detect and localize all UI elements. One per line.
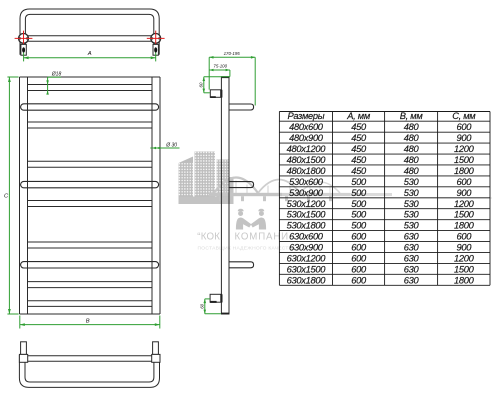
- svg-text:170-195: 170-195: [224, 51, 241, 56]
- svg-text:600: 600: [456, 122, 472, 132]
- top view left bracket stem: [21, 44, 26, 55]
- side view middle protruding rung end: [229, 182, 254, 188]
- dimensions table grid: [279, 112, 490, 286]
- svg-text:1500: 1500: [454, 264, 475, 274]
- svg-text:530x1200: 530x1200: [287, 199, 327, 209]
- svg-text:500: 500: [351, 199, 367, 209]
- watermark handshake figures: [236, 209, 266, 230]
- bottom view right bracket block: [152, 354, 160, 362]
- top view right bracket stem: [153, 44, 158, 55]
- svg-text:1200: 1200: [454, 144, 475, 154]
- bottom view right bracket stem: [153, 342, 159, 355]
- svg-text:630: 630: [404, 232, 420, 242]
- front view rung 3: [28, 122, 153, 128]
- svg-text:480: 480: [404, 144, 420, 154]
- front view rung 9: [28, 282, 153, 288]
- svg-text:450: 450: [351, 144, 367, 154]
- svg-text:530: 530: [404, 188, 420, 198]
- dimension C: [7, 77, 18, 314]
- dimensions table text: [287, 111, 477, 285]
- watermark logo city buildings: [179, 152, 234, 205]
- svg-text:600: 600: [351, 253, 367, 263]
- svg-text:480: 480: [404, 133, 420, 143]
- svg-text:1200: 1200: [454, 253, 475, 263]
- svg-text:630x600: 630x600: [289, 232, 324, 242]
- svg-text:530: 530: [404, 199, 420, 209]
- front view rung 6: [28, 201, 153, 207]
- side view tube bottom cap: [221, 313, 229, 315]
- dimension A: [24, 53, 156, 62]
- svg-text:1200: 1200: [454, 199, 475, 209]
- front view bottom closing tube: [20, 313, 161, 315]
- svg-text:480x900: 480x900: [289, 133, 324, 143]
- svg-text:1800: 1800: [454, 221, 475, 231]
- bottom view left bracket block: [19, 354, 27, 362]
- dimension 170-195: [209, 57, 255, 105]
- svg-text:C: C: [4, 194, 9, 200]
- front view rung 4: [28, 161, 153, 167]
- top view U-shaped rail tube: [20, 9, 159, 55]
- svg-text:530: 530: [404, 221, 420, 231]
- svg-text:С, мм: С, мм: [452, 111, 476, 121]
- svg-text:900: 900: [456, 188, 472, 198]
- front view rung 2 protruding rung: [21, 104, 159, 110]
- svg-text:630: 630: [404, 264, 420, 274]
- front view rung 8 protruding rung: [21, 262, 159, 268]
- svg-text:600: 600: [456, 177, 472, 187]
- svg-text:1500: 1500: [454, 155, 475, 165]
- svg-text:1800: 1800: [454, 166, 475, 176]
- svg-text:630x1500: 630x1500: [287, 264, 327, 274]
- svg-text:900: 900: [456, 133, 472, 143]
- dimension D18 leader: [48, 77, 61, 94]
- svg-text:А, мм: А, мм: [346, 111, 371, 121]
- svg-text:Ø 30: Ø 30: [165, 143, 177, 149]
- dimension 75-100: [209, 70, 230, 77]
- svg-text:480x1500: 480x1500: [287, 155, 327, 165]
- front view top closing tube: [20, 77, 161, 85]
- front view left stile tube: [20, 77, 28, 314]
- bottom view straight rung tube: [28, 356, 152, 361]
- svg-text:Размеры: Размеры: [287, 111, 324, 121]
- svg-text:450: 450: [351, 133, 367, 143]
- svg-text:530x600: 530x600: [289, 177, 324, 187]
- svg-text:900: 900: [456, 243, 472, 253]
- svg-text:500: 500: [351, 221, 367, 231]
- top view right red center mark: [147, 31, 165, 47]
- watermark bridge: [214, 178, 340, 194]
- side view upper protruding rung end: [229, 104, 254, 110]
- svg-text:630: 630: [404, 275, 420, 285]
- dimension 60 bottom: [205, 299, 221, 314]
- svg-text:600: 600: [351, 275, 367, 285]
- svg-text:75-100: 75-100: [213, 64, 227, 69]
- svg-text:500: 500: [351, 188, 367, 198]
- svg-text:630x1800: 630x1800: [287, 275, 327, 285]
- svg-text:600: 600: [351, 243, 367, 253]
- svg-text:“КОККОМПАНИ: “КОККОМПАНИ: [197, 231, 289, 242]
- svg-text:530x1800: 530x1800: [287, 221, 327, 231]
- svg-text:600: 600: [351, 232, 367, 242]
- top view left wall bracket circle: [19, 34, 29, 44]
- top view straight rung tube: [25, 36, 153, 42]
- svg-text:ПОСТАВЩИК НАДЕЖНОГО КАЧЕСТВА: ПОСТАВЩИК НАДЕЖНОГО КАЧЕСТВА: [198, 245, 297, 251]
- dimension 60 top: [204, 77, 230, 93]
- svg-text:480: 480: [404, 166, 420, 176]
- top view left red center mark: [15, 31, 33, 47]
- svg-text:Ø18: Ø18: [51, 72, 62, 78]
- svg-text:630x1200: 630x1200: [287, 253, 327, 263]
- svg-text:480: 480: [404, 155, 420, 165]
- front view rung 1: [28, 90, 153, 92]
- dimension B: [20, 316, 160, 329]
- svg-text:530x1500: 530x1500: [287, 210, 327, 220]
- side view bottom wall bracket: [210, 294, 222, 303]
- svg-text:480x1800: 480x1800: [287, 166, 327, 176]
- svg-text:A: A: [87, 51, 92, 57]
- bottom view left bracket stem: [21, 342, 27, 355]
- dimension D30 leader: [150, 147, 179, 149]
- side view top wall bracket: [210, 90, 222, 98]
- svg-text:В, мм: В, мм: [400, 111, 424, 121]
- svg-text:60: 60: [199, 303, 204, 308]
- side view vertical collector tube: [221, 77, 229, 314]
- front view rung 10: [28, 301, 153, 307]
- svg-text:450: 450: [351, 122, 367, 132]
- svg-text:500: 500: [351, 210, 367, 220]
- svg-text:630: 630: [404, 243, 420, 253]
- svg-text:530: 530: [404, 177, 420, 187]
- svg-text:600: 600: [456, 232, 472, 242]
- svg-text:1800: 1800: [454, 275, 475, 285]
- watermark bridge deck: [209, 193, 492, 201]
- svg-text:60: 60: [198, 82, 203, 87]
- svg-text:480x1200: 480x1200: [287, 144, 327, 154]
- svg-text:480: 480: [404, 122, 420, 132]
- svg-text:530: 530: [404, 210, 420, 220]
- side view tube top cap: [221, 76, 229, 78]
- svg-text:450: 450: [351, 166, 367, 176]
- svg-text:1500: 1500: [454, 210, 475, 220]
- svg-text:480x600: 480x600: [289, 122, 324, 132]
- svg-text:530x900: 530x900: [289, 188, 324, 198]
- front view rung 7: [28, 242, 153, 248]
- svg-text:600: 600: [351, 264, 367, 274]
- svg-text:630x900: 630x900: [289, 243, 324, 253]
- side view lower protruding rung end: [229, 262, 254, 268]
- svg-text:450: 450: [351, 155, 367, 165]
- top view right wall bracket circle: [151, 34, 161, 44]
- front view rung 5 protruding rung: [21, 181, 159, 187]
- svg-text:B: B: [86, 319, 90, 325]
- svg-text:500: 500: [351, 177, 367, 187]
- svg-text:630: 630: [404, 253, 420, 263]
- front view right stile tube: [152, 77, 160, 314]
- bottom view U-shaped rail tube: [19, 355, 159, 387]
